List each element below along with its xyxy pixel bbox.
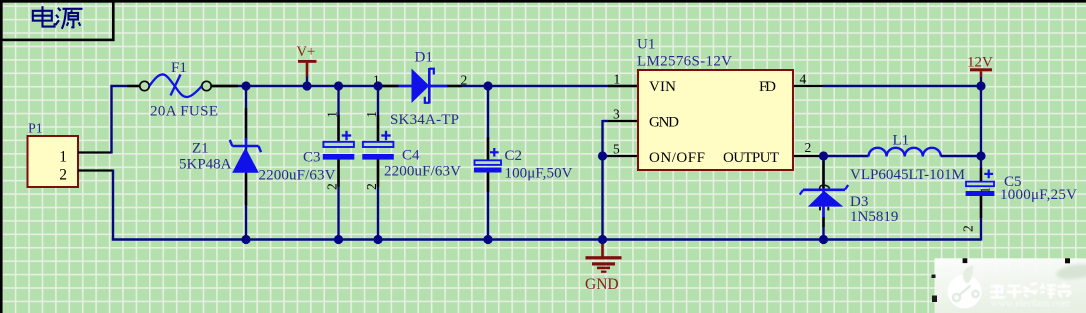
black pin segments of D1: [380, 85, 399, 87]
junction rail C2: [483, 235, 492, 244]
svg-text:P1: P1: [28, 122, 43, 137]
svg-text:www.elecfans.com: www.elecfans.com: [991, 299, 1071, 310]
junction ON/OFF GND-net node: [598, 151, 607, 160]
svg-text:1: 1: [325, 111, 340, 118]
svg-text:D1: D1: [415, 50, 433, 66]
wire P1 pin2 down to bottom rail: [112, 170, 114, 240]
svg-text:2: 2: [325, 183, 340, 190]
svg-text:U1: U1: [637, 37, 655, 53]
svg-text:D3: D3: [850, 194, 868, 210]
junction C3 top node: [334, 81, 343, 90]
main top wire: [211, 85, 638, 88]
svg-text:2: 2: [805, 140, 812, 155]
wire L1 to C5 node: [941, 155, 981, 157]
junction rail GND: [598, 235, 607, 244]
capacitor C4: [362, 85, 394, 240]
svg-text:OUTPUT: OUTPUT: [723, 150, 779, 166]
svg-text:4: 4: [800, 72, 807, 87]
svg-text:V+: V+: [297, 44, 316, 60]
U1 pin4 stub: [793, 85, 823, 87]
diode D3: [800, 185, 848, 210]
svg-text:1000μF,25V: 1000μF,25V: [1000, 187, 1077, 203]
wire pin4 to 12V: [823, 85, 981, 87]
P1 pin 2 stub: [78, 169, 113, 171]
junction 12V node: [976, 81, 985, 90]
svg-text:20A FUSE: 20A FUSE: [150, 104, 218, 120]
svg-text:F1: F1: [171, 60, 187, 76]
black pin segment after fuse: [211, 85, 238, 87]
12V power symbol: [970, 68, 992, 86]
svg-text:2: 2: [364, 183, 379, 190]
svg-text:FD: FD: [759, 79, 776, 95]
sheet top border: [0, 0, 1086, 3]
capacitor C2: [474, 85, 502, 240]
U1 pin3 wire+stub: [603, 120, 609, 122]
svg-text:5: 5: [613, 142, 620, 157]
junction C4/D1 node: [373, 81, 382, 90]
svg-text:1N5819: 1N5819: [850, 209, 898, 225]
svg-text:VLP6045LT-101M: VLP6045LT-101M: [850, 167, 965, 183]
fuse F1: [140, 74, 211, 97]
svg-text:12V: 12V: [967, 55, 993, 71]
junction rail C4: [373, 235, 382, 244]
svg-text:1: 1: [614, 72, 621, 87]
blue pin segments of D1: [399, 85, 413, 87]
junction rail D3: [819, 235, 828, 244]
svg-text:GND: GND: [585, 276, 619, 293]
capacitor C5: [966, 168, 995, 218]
svg-text:5KP48A: 5KP48A: [179, 157, 232, 173]
svg-text:2: 2: [461, 73, 468, 88]
svg-text:C4: C4: [402, 148, 420, 164]
ground symbol: [586, 240, 622, 273]
svg-text:GND: GND: [649, 115, 679, 131]
capacitor C3: [323, 85, 355, 240]
TVS diode Z1: [230, 140, 261, 173]
right vertical wire 12V down to rail: [980, 85, 982, 183]
V+ power symbol: [298, 60, 317, 86]
wire P1 pin1 up to fuse: [112, 86, 141, 154]
watermark CJK text strokes: [991, 282, 1072, 299]
junction rail Z1: [241, 235, 250, 244]
svg-text:SK34A-TP: SK34A-TP: [390, 112, 459, 128]
junction V+ node: [302, 81, 311, 90]
wire Z1 vertical: [245, 85, 247, 240]
junction Z1 top node: [241, 81, 250, 90]
svg-text:LM2576S-12V: LM2576S-12V: [637, 54, 732, 70]
title 电 glyph: [33, 6, 55, 26]
bottom rail wire: [112, 238, 981, 241]
svg-text:ON/OFF: ON/OFF: [649, 150, 705, 166]
svg-text:3: 3: [613, 107, 620, 122]
svg-text:1: 1: [978, 187, 993, 194]
svg-text:L1: L1: [893, 133, 910, 149]
svg-text:2200uF/63V: 2200uF/63V: [259, 168, 336, 184]
svg-text:Z1: Z1: [192, 141, 209, 157]
title box: [1, 1, 113, 40]
svg-text:2200uF/63V: 2200uF/63V: [384, 164, 461, 180]
svg-text:1: 1: [364, 111, 379, 118]
svg-text:100μF,50V: 100μF,50V: [505, 166, 573, 182]
junction C2 top node: [483, 81, 492, 90]
junction L1/C5 node: [976, 151, 985, 160]
svg-text:2: 2: [961, 225, 976, 232]
P1 pin 1 stub: [78, 151, 112, 153]
connector P1: [28, 136, 79, 187]
watermark corner swirl: [1055, 262, 1086, 281]
svg-text:C3: C3: [303, 150, 321, 166]
svg-text:1: 1: [59, 149, 67, 166]
regulator U1: [638, 70, 793, 170]
wire D3 vertical: [822, 155, 824, 240]
title 源 glyph: [56, 8, 83, 29]
GND net vertical wire: [601, 120, 603, 240]
junction rail C3: [334, 235, 343, 244]
sheet left border: [0, 0, 3, 313]
U1 pin2 stub: [793, 155, 823, 157]
junction OUTPUT/D3 node: [819, 151, 828, 160]
watermark logo circle: [948, 275, 982, 309]
svg-text:2: 2: [59, 167, 67, 184]
U1 pin1 stub: [608, 85, 638, 87]
inductor L1: [869, 148, 941, 157]
diode D1: [412, 68, 434, 104]
svg-text:C2: C2: [505, 148, 523, 164]
U1 pin5 wire+stub: [603, 155, 609, 157]
svg-text:VIN: VIN: [649, 79, 676, 95]
wire pin2/OUTPUT to L1: [823, 155, 869, 157]
